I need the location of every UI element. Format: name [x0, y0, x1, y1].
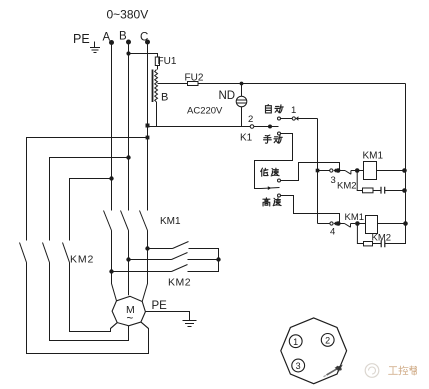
wire right rail [405, 84, 407, 224]
node K1 pivot [268, 125, 272, 129]
wire row2 right [188, 259, 219, 261]
wire connector1 to rail [298, 118, 317, 120]
wire top control line [198, 83, 406, 85]
wire phase A upper [111, 43, 113, 211]
wire to KM1 coil [357, 170, 363, 172]
node C row1 [145, 246, 149, 250]
wire K1 common [254, 126, 279, 128]
wire manual branch [255, 134, 293, 189]
svg-text:KM1: KM1 [363, 150, 384, 161]
node A row3 [109, 269, 113, 273]
capacitor C2 snubber [381, 240, 385, 247]
label watermark gongkongbang [389, 366, 417, 375]
switch speed selector arm [261, 186, 280, 190]
wire motor lead bottom-right [141, 322, 149, 329]
fuse FU1 [155, 57, 159, 66]
contact KM1 NC [345, 224, 356, 228]
wire FU1 to transformer [157, 66, 159, 70]
node C control-return [146, 124, 150, 128]
svg-text:PE: PE [73, 32, 90, 46]
label gaosu high [263, 198, 281, 206]
transformer B core [152, 70, 154, 103]
svg-text:KM2: KM2 [168, 277, 191, 289]
svg-text:FU2: FU2 [185, 73, 204, 84]
wire motor lead bottom-left [111, 323, 118, 332]
svg-text:~: ~ [127, 313, 134, 325]
contact KM1 phase C [140, 211, 148, 302]
wire auto to connector1 [281, 118, 293, 120]
svg-text:AC220V: AC220V [187, 106, 223, 117]
watermark logo circle [365, 364, 379, 378]
wire node3 to KM2 NC [338, 170, 345, 172]
wire KM1 coil to rail [377, 170, 406, 172]
contact KM2-left inner [63, 243, 70, 263]
node star row2 [216, 257, 220, 261]
node rail-row3 junction [316, 169, 320, 173]
label zidong auto [265, 105, 283, 113]
connector 1 [292, 116, 298, 120]
wire control return [148, 126, 251, 128]
svg-text:2: 2 [248, 114, 253, 125]
wire high-speed branch [281, 196, 340, 223]
wire snubber2 drop [357, 224, 363, 244]
coil KM2 [366, 216, 378, 234]
svg-text:ND: ND [219, 90, 236, 102]
contact terminal K1 auto [278, 117, 281, 120]
node KM2-coil left [355, 221, 360, 226]
contact KM1 phase A [104, 211, 117, 301]
label shoudong manual [264, 135, 283, 143]
node terminal B [126, 40, 131, 45]
wire middle loop [50, 158, 129, 341]
contact terminal node 2 socket [250, 125, 254, 129]
wire row2 left [129, 259, 172, 261]
svg-text:1: 1 [291, 105, 296, 116]
connector 4 [330, 221, 337, 225]
wire row1 left [148, 248, 173, 250]
contact KM2-right row3 [172, 265, 188, 272]
wire motor PE [145, 312, 189, 321]
node 3 junction [336, 168, 341, 173]
contact KM2-right row1 [173, 242, 189, 249]
node 4 junction [336, 221, 341, 226]
contact KM2-left middle [43, 243, 50, 263]
wire low-speed branch [281, 163, 340, 181]
node B tap [126, 51, 130, 55]
wire ND bottom lead [241, 107, 243, 127]
svg-text:KM1: KM1 [160, 216, 181, 227]
wire rail to connector3 [318, 170, 330, 172]
capacitor C1 snubber [381, 187, 385, 194]
node ND top [240, 82, 244, 86]
svg-text:3: 3 [331, 175, 336, 186]
svg-text:KM1: KM1 [345, 212, 365, 223]
label disu low [261, 168, 279, 176]
svg-text:1: 1 [293, 337, 298, 347]
contact terminal high speed [278, 194, 281, 197]
wire outer loop [27, 138, 149, 354]
wire row3 left [112, 271, 172, 273]
svg-text:KM2: KM2 [337, 181, 357, 192]
ground PE [90, 42, 100, 53]
coil KM1 [364, 162, 377, 180]
motor M body [112, 296, 145, 326]
svg-text:0~380V: 0~380V [107, 8, 149, 22]
wire phase B upper [128, 42, 130, 211]
contact KM2 NC [345, 171, 355, 175]
svg-text:B: B [119, 31, 127, 43]
contact KM1 phase B [121, 211, 129, 296]
node right-rail snubber1 [402, 188, 407, 193]
ground motor PE [183, 321, 197, 327]
connector 3 [330, 168, 337, 172]
svg-text:B: B [161, 92, 168, 104]
wire node4 to KM1 NC [338, 223, 344, 225]
node right-rail row3 [402, 168, 407, 173]
contact KM2-left outer [20, 243, 27, 263]
wire AC220 secondary tap [158, 83, 188, 85]
wire rail corner to connector4 [318, 223, 331, 225]
contact terminal K1 manual [278, 132, 281, 135]
svg-text:K1: K1 [240, 133, 253, 144]
wire inner loop [70, 179, 118, 332]
pin 2 circle [321, 334, 334, 347]
wire motor lead bottom-mid [128, 326, 130, 341]
wire R1 to C1 [373, 190, 381, 192]
wire phase C upper [147, 42, 149, 211]
node KM1-coil left [355, 168, 360, 173]
contact terminal low speed [278, 179, 281, 182]
wire R2 to C2 [373, 243, 382, 245]
pin 3 circle [292, 359, 305, 372]
svg-text:2: 2 [325, 336, 330, 346]
wire snubber1 drop [357, 171, 362, 191]
node terminal C [145, 40, 150, 45]
wire transformer bottom [156, 102, 158, 127]
wire row3 right [188, 260, 219, 272]
pin 1 circle [289, 335, 302, 348]
node B middle-loop [126, 155, 130, 159]
lamp ND [236, 96, 247, 107]
resistor R1 snubber [363, 188, 374, 193]
svg-text:4: 4 [330, 227, 335, 238]
wire KM2 coil to rail [378, 223, 406, 225]
connector plug octagon [281, 318, 347, 384]
wire control rail [317, 119, 319, 224]
node terminal A [109, 40, 114, 45]
wire to KM2 coil [357, 223, 365, 225]
pin 4 smudge arrow [324, 365, 343, 377]
svg-text:KM2: KM2 [70, 254, 94, 266]
svg-text:PE: PE [152, 300, 168, 312]
contact KM2-right row2 [172, 253, 188, 260]
svg-text:3: 3 [296, 361, 301, 371]
wire C1 to rail [385, 190, 406, 192]
node B row2 [126, 257, 130, 261]
fuse FU2 [188, 82, 199, 86]
wire ND top lead [241, 84, 243, 97]
node A inner-loop [109, 176, 113, 180]
wire B tap to FU1 [129, 54, 158, 57]
wire row1 right [189, 249, 219, 260]
resistor R2 snubber [364, 242, 373, 246]
node right-rail bottom [403, 221, 408, 226]
svg-text:FU1: FU1 [158, 56, 177, 67]
node C outer-loop [146, 136, 150, 140]
transformer B winding [155, 70, 158, 103]
wire C2 to rail [385, 224, 406, 244]
